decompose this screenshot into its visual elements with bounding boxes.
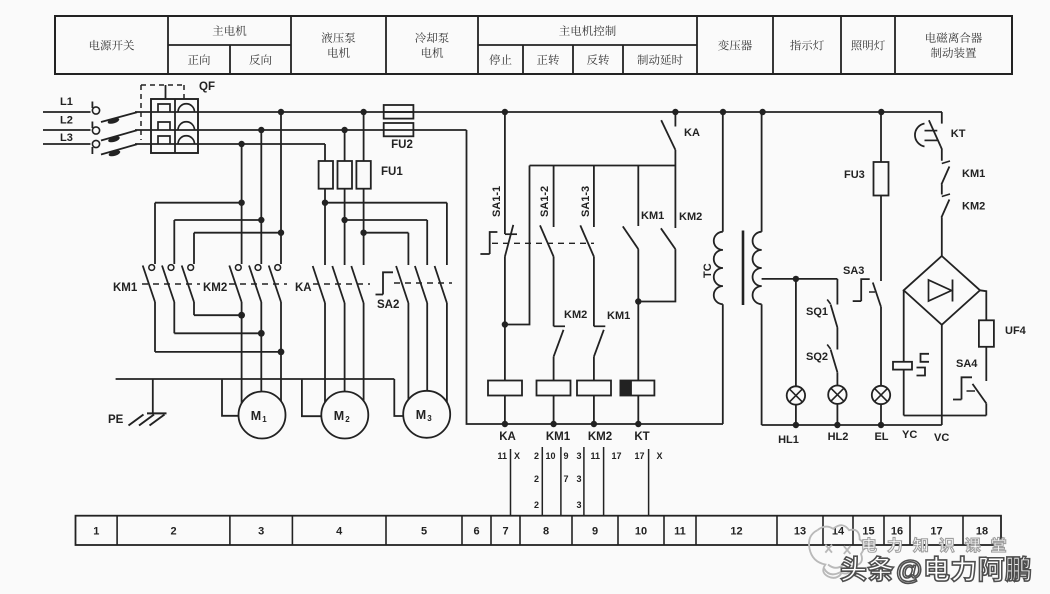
wire bus to FU3 [880,112,882,162]
wire PE to M3 [394,379,403,416]
svg-text:KM1: KM1 [607,310,630,322]
terminal L1 [92,107,99,114]
svg-text:L1: L1 [60,96,73,108]
wire HL2 to rail [836,404,838,425]
rectifier bridge VC [904,256,980,325]
wire KM1 contact to KT coil [637,249,639,380]
svg-text:4: 4 [336,526,343,538]
wire L1 to QF [135,111,152,113]
crossover jumper KM1c1-KM2c3 [155,351,281,353]
wire L1 bus [198,111,942,113]
knife switch blade L1 [101,112,137,122]
svg-text:SA1-2: SA1-2 [539,186,551,217]
wire jumper to KM1 col2 [174,219,261,221]
svg-text:11: 11 [497,451,507,461]
table cell text 照明灯 [851,40,885,50]
terminal wire 7 (X) [510,449,512,516]
terminal L2 [92,127,99,134]
svg-text:VC: VC [934,432,949,444]
header table frame [55,16,1012,74]
lamp rail junction dots [793,422,799,428]
svg-text:3: 3 [576,500,581,510]
wire QF pole through [151,111,198,113]
relay contact KM1 (NO) branch [637,166,639,227]
svg-text:SQ1: SQ1 [806,306,828,318]
clutch coil YC [893,362,912,370]
svg-text:KM2: KM2 [564,309,587,321]
svg-text:KA: KA [684,127,700,139]
svg-text:KT: KT [951,128,966,140]
wire L2 bus FU2 to control drop [413,129,466,131]
SA1-1 manual operator bracket [490,232,498,254]
wire KA col3 to motor M2 [363,303,365,401]
wire TC secondary tap [762,278,838,280]
crossover jumper KM1c2-KM2c2 [174,332,261,334]
terminal wires 8 [541,447,543,516]
lamp circuit bottom rail [762,424,942,426]
svg-text:SA1-1: SA1-1 [491,186,503,217]
KM1 mechanical dashed link [142,283,200,285]
svg-text:KM2: KM2 [679,211,702,223]
wire bridge left to YC coil [903,290,905,362]
svg-text:2: 2 [345,415,350,424]
junction dots on drops [238,200,244,206]
svg-text:M: M [334,409,344,423]
svg-text:HL1: HL1 [778,434,799,446]
illumination lamp EL [872,386,890,404]
wire KM1 col2 vertical [173,220,175,264]
switch SA1-1 branch wire from L1 bus [504,112,506,234]
svg-text:16: 16 [891,526,903,538]
svg-text:UF4: UF4 [1005,325,1027,337]
motor M1 [239,392,286,439]
svg-text:PE: PE [108,414,124,426]
wire SQ2 to HL2 [836,372,838,385]
table sub-divider 正向/反向 [229,45,231,74]
terminal strip dividers [116,516,118,545]
table sub-row divider under 主电机控制 [478,44,697,46]
svg-text:KM1: KM1 [641,210,664,222]
svg-text:YC: YC [902,429,917,441]
svg-text:KM2: KM2 [203,282,227,294]
svg-text:9: 9 [592,526,598,538]
wire KA coil to rail [504,396,506,425]
wire KM2 contact to bridge [941,218,943,257]
wire L1 incoming [43,111,91,113]
QF dashed enclosure [141,84,184,86]
svg-text:SA4: SA4 [956,358,978,370]
wire KM1 col1 lower [154,302,156,352]
wire TC secondary bottom [761,304,763,425]
knife switch blade L2 [101,130,137,140]
wire SA2 col2 to motor M3 [426,303,428,391]
table cell text 液压泵电机 [322,32,356,43]
wire KM1 coil to rail [553,396,555,425]
terminal wires 9 [583,447,585,516]
contactor coil KM2 [577,381,611,396]
table sub-dividers 停止/正转/反转/制动延时 [522,45,524,74]
wire KT coil to rail [637,396,639,425]
table cell text 指示灯 [790,40,824,51]
svg-text:KA: KA [295,282,312,294]
wire KA col1 to motor M2 [324,303,326,402]
wire tap corner to SQ1 [836,279,838,305]
switch SA1-2 branch [553,166,555,228]
svg-text:3: 3 [427,414,432,423]
table cell text 主电机 [213,25,247,36]
svg-text:2: 2 [534,500,539,510]
wire control feed from L2/FU2 [467,130,724,424]
watermark logo sketch [809,525,864,578]
wire to KM2 coil [593,357,595,381]
wire L1 down to FU1-3 [363,112,365,161]
svg-text:11: 11 [674,526,686,538]
svg-text:10: 10 [635,526,647,538]
svg-text:2: 2 [534,474,539,484]
fuse FU2 lower [384,123,414,136]
fuse FU3 [874,162,889,196]
svg-text:12: 12 [730,526,742,538]
TC primary winding [714,232,723,250]
wire HL1 to rail [795,405,797,425]
svg-text:5: 5 [421,526,427,538]
wire L3 down to FU1-1 [324,144,326,161]
wire SQ1 to SQ2 [836,328,838,350]
PE bus wire [116,378,395,380]
switch SA3 manual operator [861,279,870,301]
table cell text 主电机控制 [559,25,615,36]
wire KM1 col3 vertical [193,233,195,264]
svg-text:3: 3 [576,451,581,461]
QF pole contact at y=130 [158,122,170,130]
wire SA2 col3 to motor M3 [446,303,448,402]
SA1-1 NC contact [505,233,517,235]
svg-text:L2: L2 [60,115,73,127]
svg-text:15: 15 [862,526,874,538]
wire drop to KM2 col2 (from L2) [260,130,262,264]
QF actuator link [165,85,167,99]
svg-text:HL2: HL2 [828,431,849,443]
transformer TC primary wire from bus [722,112,724,232]
KM2 mechanical dashed link [229,283,287,285]
contactor KM1 main contacts [149,265,155,271]
wire bridge right to UF4 [980,290,986,320]
svg-text:M: M [251,409,261,423]
svg-text:KT: KT [634,431,649,443]
svg-text:KA: KA [499,431,516,443]
indicator lamp HL1 [787,386,805,404]
wire FU1-1 to KA col1 [324,189,326,265]
svg-text:6: 6 [473,526,479,538]
terminal L3 [92,140,99,147]
wire to KM1 coil [553,357,555,381]
svg-text:SQ2: SQ2 [806,351,828,363]
control rail wire [530,165,676,167]
terminal wire 10 [648,449,650,516]
svg-text:17: 17 [612,451,622,461]
wire jumper to KM1 col1 [155,202,242,204]
svg-text:1: 1 [262,415,267,424]
svg-text:7: 7 [502,526,508,538]
wire jumper to KM1 col3 [194,232,281,234]
relay contact KA (latch) from bus [674,112,676,127]
wire PE to M1 [222,379,239,416]
QF pole contact at y=144 [158,136,170,144]
crossover jumper KM1c3-KM2c1 [194,314,242,316]
SA2 manual operator bracket [383,272,393,294]
svg-text:17: 17 [930,526,942,538]
svg-text:3: 3 [576,474,581,484]
SA3 contact blade [873,283,881,307]
wire KM1 col3 lower [193,302,195,315]
SA4 contact blade [973,384,987,404]
wire bridge bottom to rail [941,325,943,425]
TC secondary winding [753,232,762,250]
wire L2 down to FU1-2 [344,130,346,161]
indicator lamp HL2 [828,386,846,404]
svg-text:@: @ [896,555,922,585]
svg-text:KM1: KM1 [546,431,571,443]
wire bus corner down to KT contact [941,112,943,124]
wire SA3 to EL [880,307,882,386]
table sub-row divider under 主电机 [168,44,291,46]
wire KM2 col3 to motor M1 [280,302,282,401]
svg-text:KM2: KM2 [962,201,985,213]
svg-text:SA2: SA2 [377,299,399,311]
svg-text:FU3: FU3 [844,169,865,181]
svg-text:3: 3 [258,526,264,538]
wire KM2 coil to rail [593,396,595,425]
svg-text:2: 2 [170,526,176,538]
table cell text 冷却泵电机 [415,32,449,43]
wire KM2 col1 to motor M1 [241,302,243,403]
table cell text 制动延时 [637,54,682,65]
interlock contact KM2 (NC) [554,325,565,327]
svg-text:M: M [416,408,426,422]
svg-text:KM1: KM1 [962,168,985,180]
KA mechanical dashed link [313,283,370,285]
wire L2 incoming [43,129,91,131]
knife switch blade L3 [101,144,137,154]
wire KA col2 to motor M2 [344,303,346,392]
wire jumper KA col1 to SA2 col3 [325,202,447,204]
switch SA1-3 branch [593,166,595,228]
wire UF4 to SA4 [985,347,987,381]
wire SA1-1 to KA coil [504,257,506,381]
wire drop to KM2 col1 (from L3) [241,144,243,264]
switch SA2 contacts [396,266,408,303]
table cell text 电磁离合器制动装置 [926,32,982,43]
wire L2 bus to FU2 [198,129,384,131]
wire SA2 col1 to motor M3 [407,303,409,400]
contactor KM2 main contacts [235,265,241,271]
limit switch SQ2 [827,345,830,350]
clutch jaw symbol [921,354,930,362]
wire QF pole through [151,143,198,145]
wire drop to KM2 col3 (from L1) [280,112,282,264]
wire SA1-3 to KM1 interlock [593,257,595,327]
wire PE to M2 [302,379,321,416]
SA2 mechanical dashed link [394,282,452,284]
wire KM2 contact to junction [638,249,675,301]
table cell text 正转 [537,54,559,65]
auxiliary contact KM2 (NC) [942,194,950,197]
motor M3 [403,391,450,438]
wire KM1 col1 vertical [154,203,156,264]
svg-text:11: 11 [591,451,601,461]
TC core [742,231,745,306]
wire L3 incoming [43,143,91,145]
transformer TC secondary wire to bus [761,112,763,232]
relay coil KA [488,381,522,396]
svg-text:QF: QF [199,81,215,93]
svg-text:13: 13 [794,526,806,538]
svg-text:X: X [657,451,663,461]
svg-text:2: 2 [534,451,539,461]
resistor UF4 [979,320,994,347]
wire L2 to QF [135,129,152,131]
terminal strip frame [76,516,1002,545]
limit switch SQ1 [827,300,830,305]
QF pole contact at y=112 [158,104,170,112]
watermark text small 电力知识课堂 [863,537,1006,552]
wire KM2 col2 to motor M1 [260,302,262,392]
svg-text:KM2: KM2 [588,431,612,443]
fuse FU1 group [319,161,333,189]
wire SA4 to bottom link [985,403,987,415]
table cell text 正向 [188,54,210,65]
svg-text:18: 18 [976,526,988,538]
circuit breaker QF box [151,99,198,153]
svg-text:17: 17 [634,451,644,461]
auxiliary contact KM1 (NC) [942,161,950,164]
SA1 mechanical dashed link [492,242,594,244]
wire KM1 col2 lower [173,302,175,333]
control bottom rail junction dots [502,421,508,427]
svg-text:10: 10 [546,451,556,461]
wire SA1-2 to KM2 interlock [553,257,555,327]
svg-text:SA1-3: SA1-3 [580,186,592,217]
wire through FU2 lower [384,129,414,131]
fuse FU2 upper [384,105,414,119]
wire FU3 to SA3 [880,196,882,282]
table cell text 变压器 [718,40,752,51]
svg-text:FU2: FU2 [391,139,413,151]
svg-text:FU1: FU1 [381,166,403,178]
table column dividers [167,16,169,74]
wire through FU2 upper [384,111,414,113]
svg-text:7: 7 [564,474,569,484]
svg-text:EL: EL [874,431,888,443]
wire jumper KA col3 to SA2 col1 [364,232,409,234]
svg-text:X: X [514,451,520,461]
wire FU1-3 to KA col3 [363,189,365,265]
ground symbol [152,379,154,413]
table cell text 反向 [249,54,271,65]
wire jumper KA col2 to SA2 col2 [345,219,428,221]
svg-text:TC: TC [702,263,714,278]
junction dots KA columns [322,200,328,206]
time relay coil KT [620,381,654,396]
interlock contact KM1 (NC) [594,325,605,327]
time-delay contact KT [915,124,925,147]
wire L3 to QF [135,143,152,145]
junction dots on buses [278,109,284,115]
bottom link wire YC-SA4 [904,415,987,417]
wire QF pole through [151,129,198,131]
motor M2 [321,392,368,439]
wire TC primary to rail [722,304,724,424]
wire KA contact to rail [674,150,676,166]
table cell text 停止 [489,54,511,65]
wire tap to HL1 [795,279,797,386]
table cell text 反转 [587,54,609,65]
wire YC to bottom link [903,370,905,416]
svg-text:SA3: SA3 [843,265,864,277]
table cell text 电源开关 [90,40,134,51]
wire EL to rail [880,404,882,425]
latch branch wire [505,166,530,325]
relay contact KM2 (NO) branch [674,166,676,229]
bridge diode [929,280,952,301]
svg-text:KM1: KM1 [113,282,138,294]
relay KA main contacts [313,266,325,303]
watermark text large 头条@电力阿鹏 [841,556,893,581]
svg-text:8: 8 [543,526,549,538]
wire FU1-2 to KA col2 [344,189,346,265]
svg-text:1: 1 [93,526,99,538]
wire L3 bus [198,143,325,145]
svg-text:9: 9 [564,451,569,461]
contactor coil KM1 [537,381,571,396]
svg-text:L3: L3 [60,132,73,144]
switch SA4 manual operator [962,377,973,399]
